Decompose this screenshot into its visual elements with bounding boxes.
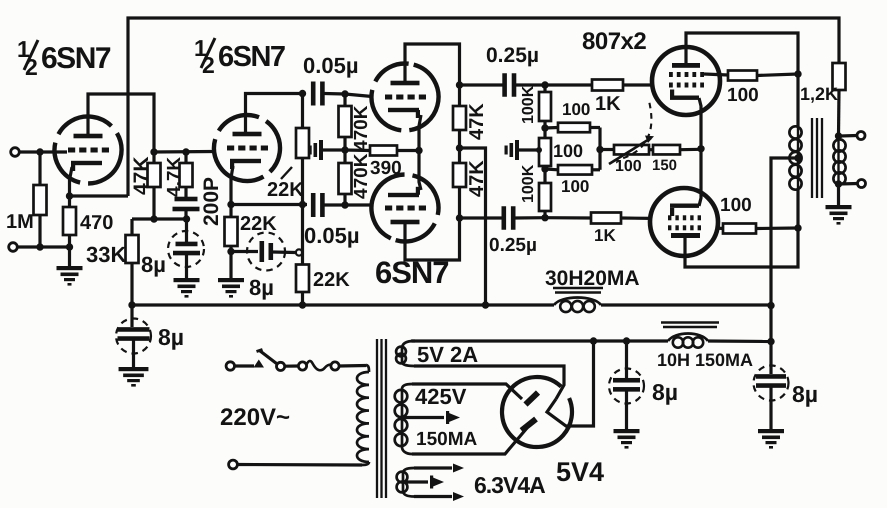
- node cathode bias: [697, 145, 704, 152]
- resistor R7 22K cathode load: [229, 205, 232, 218]
- fuse: [298, 362, 306, 370]
- node first filter cap: [623, 337, 630, 344]
- svg-text:100: 100: [615, 158, 642, 175]
- resistor R5 33K decoupling: [130, 219, 133, 235]
- capacitor C6 0.25u upper: [460, 83, 504, 86]
- svg-text:6.3V4A: 6.3V4A: [474, 472, 545, 498]
- svg-text:100: 100: [720, 195, 752, 216]
- choke L1 30H 20MA: [553, 288, 603, 293]
- svg-text:100K: 100K: [520, 85, 537, 124]
- svg-text:47K: 47K: [130, 156, 153, 195]
- ground under first filter cap: [614, 429, 640, 449]
- svg-text:100: 100: [562, 100, 590, 119]
- resistor R22 1K grid stopper lower: [591, 213, 621, 224]
- wire V2a plate to coupling node: [405, 44, 460, 85]
- svg-text:33K: 33K: [86, 242, 126, 267]
- resistor R12 47K upper plate load: [458, 85, 461, 106]
- svg-text:47K: 47K: [466, 103, 488, 140]
- input terminal top: [11, 148, 20, 157]
- power transformer core: [377, 339, 386, 498]
- svg-text:22K: 22K: [240, 213, 277, 235]
- output transformer secondary winding: [837, 140, 839, 184]
- capacitor 200P: [175, 197, 198, 202]
- capacitor C10 8u filter second: [769, 342, 772, 375]
- output terminal bottom: [858, 180, 866, 188]
- svg-text:807x2: 807x2: [582, 28, 646, 55]
- node cathode row left: [227, 201, 234, 208]
- center tap 425V: [402, 416, 444, 419]
- mains terminal bottom: [229, 460, 238, 469]
- node V2b output: [456, 214, 463, 221]
- svg-text:1K: 1K: [594, 226, 616, 245]
- resistor R19 100 variable: [600, 148, 614, 151]
- rectifier tube 5V4: [488, 363, 587, 462]
- resistor R1 1M: [38, 152, 41, 185]
- svg-text:150: 150: [652, 157, 677, 174]
- tube V2a 6SN7 upper: [364, 56, 446, 138]
- wire B+ rail: [132, 303, 554, 306]
- wire cathode output row: [231, 203, 307, 206]
- svg-text:1M: 1M: [6, 211, 34, 233]
- node secondary top: [835, 132, 842, 139]
- resistor R15 100K lower: [543, 183, 546, 218]
- wire balance right leg: [598, 128, 601, 170]
- wire V2b plate to coupling node: [405, 218, 460, 260]
- wire switch to fuse: [285, 364, 299, 367]
- node balance top: [541, 124, 548, 131]
- wire B+ from 5V winding: [412, 339, 415, 342]
- svg-text:425V: 425V: [415, 384, 467, 409]
- svg-text:0.05µ: 0.05µ: [303, 53, 359, 78]
- winding 5V 2A: [402, 341, 414, 366]
- node rail driver feed: [482, 301, 489, 308]
- wire global feedback line from output: [128, 18, 839, 196]
- svg-text:470: 470: [80, 212, 113, 234]
- wire 807 lower screen: [716, 226, 723, 230]
- node 22K bottom 8u junction: [227, 248, 234, 255]
- resistor R20 150: [649, 148, 653, 151]
- node rectifier output: [590, 337, 597, 344]
- output transformer primary winding: [797, 126, 799, 190]
- svg-text:0.25µ: 0.25µ: [489, 235, 537, 256]
- resistor R11 390 common cathode: [345, 148, 370, 152]
- label 22K upper with tick: [281, 167, 292, 179]
- svg-text:6SN7: 6SN7: [41, 42, 111, 75]
- wire to V2b grid: [345, 203, 372, 206]
- resistor R16 100 upper: [545, 126, 558, 130]
- tube 807 upper: [652, 47, 720, 115]
- wire V1b cathode down: [231, 166, 233, 205]
- wire decoupling node: [132, 217, 187, 220]
- capacitor C2 8u decoupling: [185, 219, 188, 242]
- ground under 22K cathode: [218, 278, 244, 298]
- wire 807 lower plate to transformer: [685, 190, 798, 267]
- resistor R6 22K upper: [301, 94, 304, 129]
- wire heater bottom with arrow: [414, 495, 452, 498]
- capacitor C8 8u reservoir left: [130, 305, 133, 327]
- output transformer core: [812, 118, 822, 198]
- tube V1a half 6SN7: [42, 104, 134, 196]
- node primary center tap: [794, 154, 801, 161]
- winding 425V: [402, 384, 412, 454]
- wire 5V return to rectifier: [414, 366, 564, 399]
- resistor R18 100 lower: [545, 167, 558, 171]
- resistor R25 1.2K feedback: [833, 63, 846, 90]
- output terminal top: [857, 132, 865, 140]
- node screen to plate lower: [794, 224, 801, 231]
- capacitor C9 8u filter first: [625, 341, 628, 378]
- resistor R9 470K upper: [343, 94, 346, 106]
- resistor R3 47K plate load: [152, 152, 155, 163]
- wire V2b cathode: [419, 151, 421, 191]
- node screen to plate upper: [794, 70, 801, 77]
- input terminal bottom: [9, 243, 18, 252]
- wire 807 upper screen: [704, 74, 728, 75]
- node 200P bottom / 8u top: [183, 215, 190, 222]
- svg-text:100: 100: [553, 141, 583, 161]
- resistor R23 100 screen upper: [728, 71, 757, 81]
- wire to V2a grid: [345, 94, 372, 97]
- wire HV top to rectifier plate: [412, 384, 522, 399]
- resistor R2 470: [63, 207, 76, 235]
- resistor R10 470K lower: [343, 150, 346, 163]
- svg-text:2: 2: [202, 52, 215, 78]
- svg-text:200P: 200P: [200, 177, 223, 226]
- node filter right: [767, 338, 774, 345]
- node 100K lower bottom: [541, 214, 548, 221]
- mains terminal top: [226, 362, 234, 370]
- svg-text:2: 2: [25, 54, 38, 80]
- node 470K lower bottom: [341, 201, 348, 208]
- node driver B+: [456, 144, 463, 151]
- svg-text:8µ: 8µ: [141, 252, 166, 277]
- svg-text:8µ: 8µ: [792, 381, 818, 407]
- ground under second filter cap: [758, 429, 784, 449]
- svg-text:100: 100: [561, 177, 589, 196]
- capacitor C3 8u series: [231, 250, 258, 253]
- svg-text:22K: 22K: [313, 269, 350, 291]
- resistor R4 4.7K: [184, 152, 187, 163]
- svg-text:0.05µ: 0.05µ: [304, 223, 360, 248]
- switch: [254, 360, 265, 368]
- node rail 22K lower: [299, 301, 306, 308]
- wire secondary to ground: [837, 184, 840, 205]
- svg-text:0.25µ: 0.25µ: [486, 44, 539, 67]
- choke L2 10H 150MA: [661, 323, 719, 328]
- svg-text:470K: 470K: [351, 153, 372, 199]
- wire to switch: [235, 364, 255, 367]
- node balance bottom: [541, 165, 548, 172]
- node grid-leak junction: [341, 146, 348, 153]
- svg-text:100K: 100K: [520, 164, 537, 203]
- potentiometer 100 balance: [543, 128, 546, 138]
- svg-text:5V 2A: 5V 2A: [417, 342, 478, 367]
- svg-text:470K: 470K: [351, 105, 372, 151]
- node rail right end: [767, 302, 774, 309]
- node input/1M junction: [36, 148, 43, 155]
- wire 807 upper plate to transformer: [686, 33, 798, 126]
- svg-text:220V~: 220V~: [220, 404, 290, 431]
- power transformer primary winding: [366, 365, 369, 372]
- capacitor C7 0.25u lower: [460, 216, 503, 219]
- center tap 6.3V: [404, 480, 428, 483]
- tube 807 lower inverted: [650, 188, 718, 256]
- capacitor C4 0.05u upper: [311, 82, 316, 106]
- node 4.7K top: [182, 148, 189, 155]
- wire grid1 row: [545, 83, 592, 86]
- node V2a output: [456, 81, 463, 88]
- ground under 470: [57, 266, 83, 286]
- wire bottom mains to primary: [237, 463, 362, 467]
- svg-text:22K: 22K: [267, 179, 304, 201]
- wire bottom input to cathode leg: [17, 245, 69, 248]
- tube V1b half 6SN7: [202, 103, 292, 193]
- wire V1b plate row: [246, 94, 306, 135]
- svg-text:100: 100: [727, 85, 759, 106]
- svg-text:8µ: 8µ: [249, 275, 274, 300]
- resistor R14 100K upper: [543, 85, 546, 92]
- wire V1a plate to V1b grid: [88, 94, 213, 152]
- ground under 8u decoupling: [174, 278, 200, 298]
- resistor R24 100 screen lower: [723, 224, 756, 234]
- wire secondary top to terminal: [839, 136, 858, 141]
- node rail left end: [128, 301, 135, 308]
- node V1a plate / 47K top: [150, 148, 157, 155]
- node 22K top at plate: [299, 90, 306, 97]
- wire B+ filter row: [411, 339, 668, 342]
- ground sideways at pot: [505, 140, 520, 160]
- wire V1a cathode to feedback line: [70, 167, 73, 207]
- node 1M bottom: [36, 243, 43, 250]
- svg-text:8µ: 8µ: [652, 379, 678, 405]
- node cathode junction: [66, 192, 73, 199]
- wire grid2 row: [545, 216, 591, 220]
- node bias feed: [596, 146, 603, 153]
- winding 6.3V 4A: [403, 468, 414, 497]
- node cathode row right: [299, 201, 306, 208]
- node cathodes junction: [415, 147, 422, 154]
- node 47K bottom: [150, 215, 157, 222]
- svg-text:4.7K: 4.7K: [164, 157, 185, 197]
- svg-text:6SN7: 6SN7: [218, 41, 285, 73]
- resistor R21 1K grid stopper upper: [592, 80, 623, 91]
- wire driver B+ feed: [460, 148, 486, 305]
- capacitor C5 0.05u lower: [311, 193, 316, 217]
- resistor R13 47K lower plate load: [453, 163, 466, 187]
- wire V2a cathode: [419, 115, 421, 151]
- wire heater top with arrow: [414, 466, 452, 469]
- node secondary bottom: [835, 180, 842, 187]
- ground sideways at 390: [309, 140, 324, 160]
- svg-text:1K: 1K: [595, 93, 621, 115]
- wire secondary bottom to terminal: [839, 182, 859, 186]
- svg-text:8µ: 8µ: [158, 324, 184, 350]
- wire input to V1a grid: [19, 150, 67, 153]
- svg-text:150MA: 150MA: [416, 429, 478, 450]
- svg-text:10H 150MA: 10H 150MA: [657, 350, 753, 370]
- ground under secondary: [826, 205, 852, 225]
- node 470K upper top: [341, 90, 348, 97]
- node 100K upper top: [541, 81, 548, 88]
- rectifier cathode wedge: [547, 341, 594, 426]
- svg-text:5V4: 5V4: [556, 457, 604, 487]
- svg-text:30H20MA: 30H20MA: [545, 267, 640, 290]
- resistor R8 22K lower: [301, 205, 304, 265]
- wire HV bottom to rectifier plate: [412, 428, 527, 454]
- wire 807 cathodes: [699, 98, 701, 206]
- node 470 leg / bottom wire: [66, 243, 73, 250]
- wire fuse to primary: [339, 364, 366, 368]
- wire center tap to B+: [771, 158, 798, 342]
- tube V2b 6SN7 lower inverted: [360, 163, 449, 252]
- svg-text:1,2K: 1,2K: [800, 84, 838, 104]
- ground under reservoir cap: [119, 367, 149, 387]
